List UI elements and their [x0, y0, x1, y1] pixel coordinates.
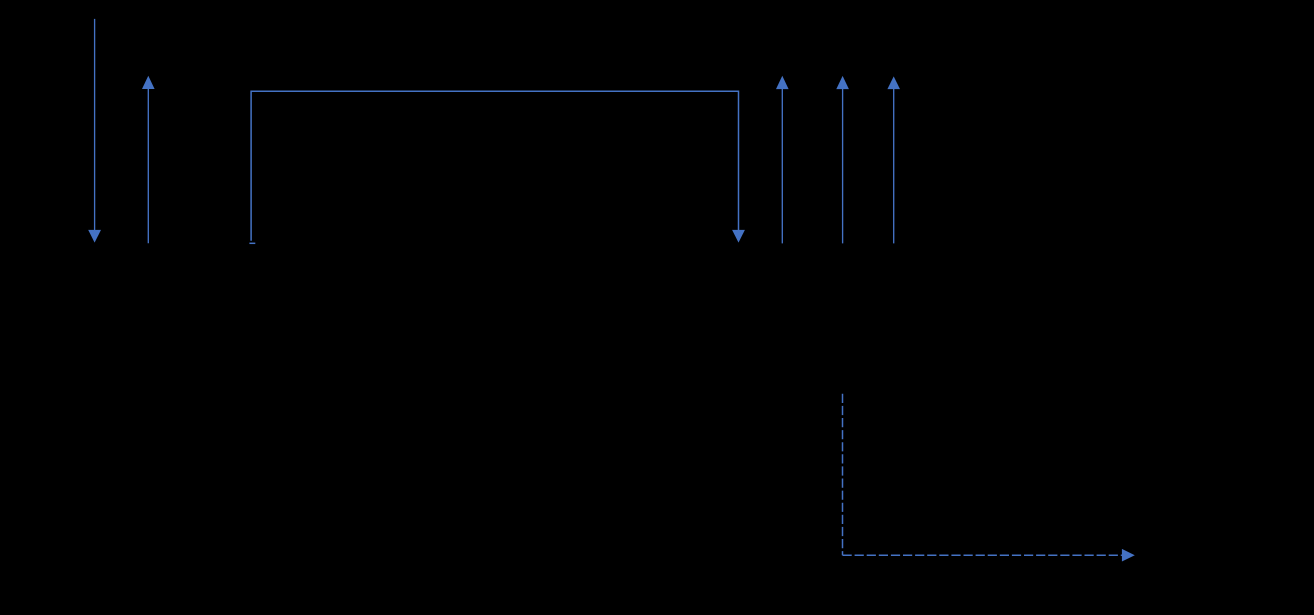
arrow A5: up arrow (third of three): [887, 76, 900, 243]
connector C2: dashed elbow arrow, down then right: [843, 394, 1135, 562]
connector C1: elbow bracket with down arrowhead at right end: [251, 91, 745, 242]
arrow A4: up arrow (second of three): [836, 76, 849, 244]
arrow A1: down arrow at left: [88, 19, 101, 243]
tick T1: short foot segment below bracket left leg: [249, 242, 255, 244]
arrow A3: up arrow (first of three): [776, 76, 789, 244]
arrow A2: up arrow at left: [142, 76, 155, 244]
